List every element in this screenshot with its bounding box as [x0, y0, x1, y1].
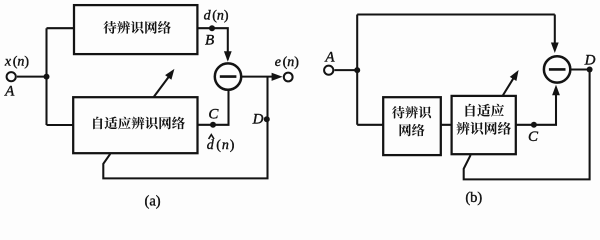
svg-text:(a): (a)	[145, 194, 161, 210]
svg-text:A: A	[324, 50, 335, 66]
svg-text:x(n): x(n)	[4, 55, 29, 70]
svg-text:C: C	[208, 107, 219, 123]
svg-text:e(n): e(n)	[275, 55, 299, 70]
svg-text:d(n): d(n)	[207, 138, 236, 153]
svg-text:B: B	[205, 32, 214, 48]
svg-text:A: A	[4, 83, 15, 99]
svg-text:D: D	[584, 52, 596, 68]
svg-text:D: D	[252, 112, 264, 128]
svg-text:C: C	[528, 129, 539, 145]
svg-text:(b): (b)	[465, 190, 482, 206]
svg-text:d(n): d(n)	[204, 9, 229, 24]
